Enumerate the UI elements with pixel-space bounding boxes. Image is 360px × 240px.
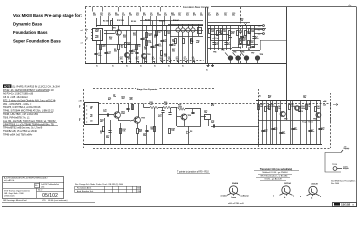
svg-text:TR3: TR3 [147, 54, 150, 56]
svg-text:0u1: 0u1 [136, 15, 139, 17]
svg-text:100k: 100k [178, 106, 182, 108]
svg-text:out: out [258, 32, 261, 35]
svg-text:50k: 50k [240, 20, 243, 22]
svg-text:15/102: 15/102 [341, 203, 351, 207]
svg-text:AC128: AC128 [311, 183, 318, 186]
svg-text:8k2: 8k2 [239, 32, 242, 34]
svg-text:TR8: TR8 [260, 54, 263, 56]
svg-text:w4B Jw5: w4B Jw5 [212, 38, 219, 40]
svg-text:TR7: TR7 [251, 53, 254, 55]
svg-text:10u: 10u [103, 111, 106, 113]
svg-text:330k: 330k [301, 108, 305, 110]
svg-text:4u7: 4u7 [153, 46, 156, 49]
svg-text:47k: 47k [130, 98, 133, 101]
svg-text:b: b [311, 198, 313, 200]
svg-text:47n: 47n [158, 115, 161, 118]
svg-text:10k: 10k [148, 42, 151, 44]
svg-text:4u7: 4u7 [215, 43, 218, 46]
svg-text:2k2: 2k2 [211, 31, 214, 33]
svg-text:47k: 47k [231, 32, 234, 35]
svg-text:10u: 10u [204, 112, 207, 114]
svg-text:2k2: 2k2 [167, 33, 170, 35]
svg-text:collector: collector [241, 194, 250, 197]
svg-text:0u1: 0u1 [208, 15, 211, 17]
svg-text:Rev 2006: Rev 2006 [331, 183, 339, 185]
svg-text:56k: 56k [151, 129, 154, 131]
svg-text:56k: 56k [114, 51, 117, 53]
svg-text:10u: 10u [113, 96, 116, 98]
svg-text:25u: 25u [143, 135, 146, 137]
svg-text:10k: 10k [150, 104, 153, 106]
svg-text:10k: 10k [122, 131, 125, 133]
svg-text:JMI - Dept. Erith - 1966: JMI - Dept. Erith - 1966 [4, 192, 24, 195]
svg-text:10n: 10n [172, 45, 175, 47]
svg-text:TR2: TR2 [130, 53, 133, 55]
svg-text:TR6: TR6 [221, 50, 224, 52]
svg-text:+9v: +9v [348, 5, 351, 7]
svg-text:47k: 47k [102, 45, 105, 48]
svg-text:Sh: Sh [35, 185, 37, 187]
svg-text:w4, wB/5 Jb: w4, wB/5 Jb [4, 180, 14, 182]
svg-text:0v: 0v [182, 66, 184, 68]
svg-text:wB4: wB4 [323, 100, 326, 103]
svg-text:D3: D3 [190, 131, 192, 133]
svg-text:4k7: 4k7 [100, 120, 103, 123]
svg-text:Jw5: Jw5 [95, 31, 98, 33]
svg-text:3k3: 3k3 [148, 35, 151, 37]
svg-text:2k2: 2k2 [133, 35, 136, 37]
svg-text:0u1: 0u1 [186, 15, 189, 17]
svg-text:w5b: w5b [41, 186, 44, 188]
svg-text:1k: 1k [100, 133, 102, 135]
svg-text:TR5: TR5 [213, 52, 216, 54]
svg-text:wv5: wv5 [95, 37, 98, 39]
svg-text:w4: w4 [90, 120, 92, 123]
svg-text:10u: 10u [294, 129, 297, 131]
svg-text:R18 4k7: R18 4k7 [173, 19, 179, 22]
svg-text:05/102: 05/102 [42, 193, 58, 199]
svg-text:Jw5: Jw5 [323, 105, 326, 107]
svg-text:100k: 100k [271, 106, 275, 108]
svg-text:oc4: oc4 [196, 41, 199, 44]
svg-text:2N4: 2N4 [121, 112, 124, 115]
svg-text:25u: 25u [282, 133, 285, 135]
svg-text:10k: 10k [164, 56, 167, 58]
svg-text:4u7: 4u7 [216, 14, 219, 17]
svg-text:NOTE: NOTE [4, 85, 11, 88]
svg-text:8k2: 8k2 [317, 108, 320, 110]
svg-text:Stage One Dynamic: Stage One Dynamic [137, 88, 158, 91]
svg-text:10k: 10k [129, 15, 132, 17]
svg-text:100k: 100k [171, 15, 175, 17]
svg-text:R2 330k: R2 330k [103, 21, 109, 23]
svg-text:e: e [273, 195, 275, 197]
svg-text:Foundation Bass: Foundation Bass [13, 30, 48, 35]
svg-text:TR10: TR10 [332, 164, 338, 166]
svg-text:w4: w4 [81, 43, 83, 45]
svg-text:R2 56k: R2 56k [145, 20, 150, 22]
svg-text:10k: 10k [164, 104, 167, 106]
svg-text:VOX Thomas Organ Industries: VOX Thomas Organ Industries [4, 189, 30, 192]
svg-text:R18 100k: R18 100k [117, 20, 124, 22]
svg-text:10u: 10u [178, 15, 181, 17]
svg-text:4k7: 4k7 [154, 36, 157, 39]
svg-text:b: b [284, 197, 286, 199]
svg-text:TR10: TR10 [299, 111, 303, 113]
svg-text:0v: 0v [168, 66, 170, 68]
svg-text:12k: 12k [171, 130, 174, 132]
svg-text:10u: 10u [311, 131, 314, 133]
svg-text:TR9: TR9 [188, 115, 191, 117]
svg-text:1N4: 1N4 [190, 40, 193, 43]
svg-text:560: 560 [139, 131, 142, 133]
svg-text:4k7: 4k7 [268, 96, 271, 99]
svg-text:wTB4 w5J/w: wTB4 w5J/w [4, 196, 15, 198]
svg-text:supply: supply [344, 148, 350, 150]
svg-text:2k2: 2k2 [122, 98, 125, 100]
svg-text:2N404: 2N404 [232, 182, 239, 185]
svg-text:output: output [343, 167, 349, 170]
svg-text:56k: 56k [251, 31, 254, 33]
svg-text:47n: 47n [321, 128, 324, 131]
svg-text:Stage Three: Stage Three [302, 121, 314, 124]
svg-text:2u5: 2u5 [211, 122, 214, 124]
svg-text:10n: 10n [158, 46, 161, 48]
svg-text:0v: 0v [96, 66, 98, 68]
svg-text:4u7: 4u7 [152, 58, 155, 61]
svg-text:10k: 10k [109, 39, 112, 41]
svg-text:47n: 47n [120, 58, 123, 61]
svg-text:emitter: emitter [221, 194, 228, 197]
svg-text:1k: 1k [138, 46, 140, 48]
svg-text:47k: 47k [211, 104, 214, 107]
svg-text:BC184: BC184 [284, 182, 291, 185]
svg-text:J5: J5 [90, 108, 92, 110]
svg-text:10n: 10n [224, 15, 227, 17]
svg-text:1k: 1k [308, 106, 310, 108]
svg-text:1N4: 1N4 [172, 40, 175, 43]
svg-text:330k: 330k [115, 15, 119, 17]
svg-text:1k: 1k [158, 32, 160, 34]
svg-text:Dynamic Bass: Dynamic Bass [13, 21, 43, 26]
svg-text:56k: 56k [172, 51, 175, 53]
svg-text:Vox MKIII Bass Pre-amp stage f: Vox MKIII Bass Pre-amp stage for: [13, 13, 82, 18]
svg-text:0u1: 0u1 [107, 53, 110, 55]
svg-text:0v: 0v [154, 66, 156, 68]
svg-text:0v: 0v [126, 66, 128, 68]
svg-text:Vox MKIII Bass Preamplifiers: Vox MKIII Bass Preamplifiers [331, 179, 355, 182]
svg-text:wB4 w5/TB4 wvB: wB4 w5/TB4 wvB [228, 203, 244, 205]
svg-text:base: base [232, 197, 237, 199]
svg-text:10u: 10u [303, 97, 306, 99]
svg-text:1k5: 1k5 [250, 42, 253, 44]
svg-text:w4B: w4B [79, 101, 83, 103]
svg-text:TR5: TR5 [233, 51, 236, 53]
svg-text:T points to junction of R: T points to junction of R9 - R10 [177, 170, 209, 173]
svg-text:TR1: TR1 [113, 28, 116, 30]
svg-text:1: 1 [79, 107, 80, 109]
svg-text:c: c [320, 196, 322, 198]
svg-text:OC81 - ge AC128: OC81 - ge AC128 [264, 177, 282, 180]
svg-text:2k2: 2k2 [127, 44, 130, 46]
svg-text:Rev Change Sch. Mods. Prelim.: Rev Change Sch. Mods. Prelim. Prod. - RB… [75, 183, 123, 186]
svg-text:8u: 8u [248, 49, 250, 51]
svg-text:0v: 0v [140, 66, 142, 68]
svg-text:22k: 22k [123, 37, 126, 39]
svg-text:50u: 50u [163, 41, 166, 43]
svg-text:25u: 25u [98, 55, 101, 57]
svg-text:50u: 50u [106, 137, 109, 139]
svg-text:22k: 22k [93, 15, 96, 17]
svg-text:25u: 25u [232, 15, 235, 17]
svg-text:47k: 47k [143, 14, 146, 17]
svg-text:w4: w4 [81, 30, 83, 32]
svg-text:JMI Jennings Musical Ind.: JMI Jennings Musical Ind. [3, 200, 27, 202]
svg-text:+9v: +9v [258, 95, 261, 97]
svg-text:TR4B w/B4 Jw5 TB/9 wB4v: TR4B w/B4 Jw5 TB/9 wB4v [3, 134, 33, 137]
svg-text:Super Foundation Bass: Super Foundation Bass [13, 38, 61, 43]
svg-text:50u: 50u [136, 59, 139, 61]
svg-text:47n: 47n [128, 58, 131, 61]
svg-text:47k: 47k [193, 14, 196, 17]
svg-text:R5 2k2: R5 2k2 [131, 21, 136, 23]
svg-text:2: 2 [86, 39, 87, 41]
svg-text:6k8: 6k8 [242, 40, 245, 42]
svg-text:c: c [293, 195, 295, 197]
svg-text:25u: 25u [227, 44, 230, 46]
svg-text:TR6: TR6 [241, 51, 244, 53]
svg-text:£8.00 (cost estimate): £8.00 (cost estimate) [48, 199, 68, 202]
svg-text:1k: 1k [121, 47, 123, 49]
svg-text:LTD: LTD [42, 200, 46, 202]
svg-text:w5: w5 [90, 116, 92, 118]
svg-text:Mullard OC44 - ge 2N404: Mullard OC44 - ge 2N404 [263, 171, 289, 174]
svg-text:e: e [300, 196, 302, 198]
svg-text:4u7: 4u7 [108, 98, 111, 101]
svg-text:A-5) H3 wB45/4wBTw/P5-41/TB4P/: A-5) H3 wB45/4wBTw/P5-41/TB4P/wTB/R5/w4w… [4, 177, 48, 180]
svg-text:TR8: TR8 [141, 118, 144, 120]
svg-text:25u: 25u [255, 38, 258, 40]
svg-text:NKT Newmarket - si BC18: NKT Newmarket - si BC184 [261, 174, 289, 177]
svg-text:0v: 0v [112, 66, 114, 68]
svg-text:2: 2 [79, 120, 80, 122]
svg-text:3k3: 3k3 [223, 31, 226, 33]
svg-text:0v: 0v [206, 70, 208, 72]
svg-text:1: 1 [86, 31, 87, 33]
svg-text:25u: 25u [200, 15, 203, 17]
svg-text:Foundation Amd.: Foundation Amd. [77, 187, 92, 190]
svg-text:330k: 330k [157, 15, 161, 17]
